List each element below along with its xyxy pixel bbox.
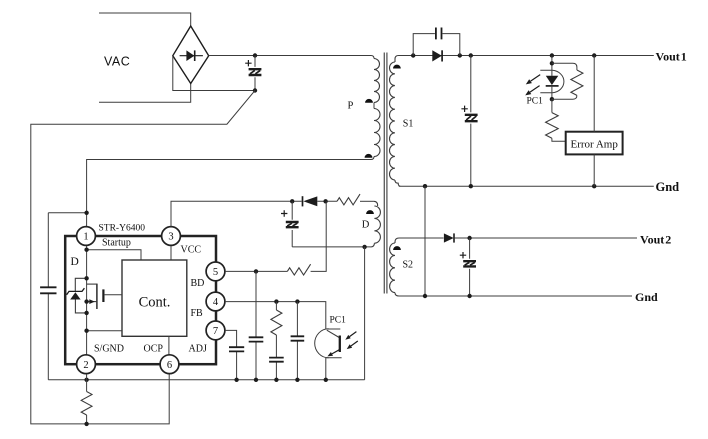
error amplifier box: [566, 132, 623, 155]
svg-text:Error Amp: Error Amp: [571, 138, 619, 150]
IC U1 STR-Y6400 outline: [65, 236, 216, 364]
node MOSFET source junction: [84, 299, 88, 303]
node output cap junction: [469, 53, 473, 57]
svg-text:Cont.: Cont.: [139, 295, 171, 311]
wire Gnd2 rail: [399, 295, 632, 297]
capacitor Vout2 electrolytic C9: [463, 261, 476, 266]
capacitor BD bypass C3: [249, 337, 264, 341]
wire FB cap2 line: [296, 302, 298, 380]
node DC bus junction: [253, 53, 257, 57]
node Gnd junction output cap: [469, 184, 473, 188]
wire Gnd link between outputs: [424, 186, 426, 296]
wire FB pin lead: [225, 302, 326, 329]
svg-text:D: D: [71, 256, 79, 268]
node snubber left junction: [411, 53, 415, 57]
pin 1 drain: [77, 227, 96, 246]
svg-text:2: 2: [83, 360, 88, 371]
node body diode cathode junction: [84, 311, 88, 315]
node snubber right junction: [458, 53, 462, 57]
wire Vout2 rail: [454, 237, 637, 239]
svg-text:3: 3: [168, 232, 173, 243]
node bus junction pin2: [84, 378, 88, 382]
node Cont lead junction: [84, 329, 88, 333]
svg-text:VCC: VCC: [181, 244, 202, 255]
pin 7 ADJ: [206, 321, 225, 340]
wire MOSFET gate lead: [104, 294, 122, 296]
node S2 polarity dot: [393, 246, 401, 250]
node LED cathode junction: [550, 97, 554, 101]
node body diode anode junction: [84, 276, 88, 280]
node primary winding bottom dot: [365, 154, 373, 158]
bridge rectifier inner diode: [180, 55, 203, 57]
node aux diode anode junction: [323, 199, 327, 203]
resistor LED parallel R5: [571, 70, 583, 95]
wire snubber loop: [413, 34, 460, 56]
resistor sense R1: [81, 392, 92, 416]
svg-text:ADJ: ADJ: [189, 344, 207, 355]
LED of optocoupler PC1: [546, 76, 559, 85]
node drain tap junction: [84, 211, 88, 215]
wire winding D return to ground bus: [364, 247, 366, 380]
wire LED branch upper: [551, 56, 553, 76]
svg-text:PC1: PC1: [527, 96, 544, 106]
wire bulk cap branch: [254, 56, 256, 91]
wire S2 top lead: [399, 237, 444, 239]
capacitor bulk electrolytic C-in: [249, 69, 262, 75]
wire sense resistor bottom: [86, 415, 88, 424]
wire Cont to source lead: [87, 330, 122, 332]
svg-text:Gnd: Gnd: [656, 180, 680, 194]
capacitor VCC electrolytic C2: [291, 201, 293, 247]
pin 3 VCC: [162, 227, 181, 246]
optocoupler arc around LED: [540, 70, 564, 93]
wire BD bypass cap line: [255, 271, 257, 379]
node FB cap junction: [295, 299, 299, 303]
node bus junction PC1 emitter: [324, 378, 328, 382]
svg-text:VAC: VAC: [104, 55, 130, 69]
wire internal drain-source line: [86, 246, 88, 355]
wire ADJ pin lead: [225, 330, 237, 379]
pin 5 BD: [206, 262, 225, 281]
capacitor FB series C4: [269, 358, 284, 362]
node Gnd junction error amp: [592, 184, 596, 188]
pin 2 S/GND: [77, 355, 96, 374]
node VCC cap junction: [290, 199, 294, 203]
capacitor snubber C7: [436, 28, 442, 40]
bridge rectifier BR1 diamond: [173, 26, 209, 84]
wire FB resistor top lead: [275, 302, 277, 310]
svg-text:Vout 1: Vout 1: [656, 49, 687, 63]
wire VAC bottom input line: [99, 84, 191, 103]
pin 4 FB: [206, 292, 225, 311]
wire error amp vertical feed: [593, 56, 595, 187]
capacitor ADJ C6: [229, 347, 244, 351]
svg-text:7: 7: [213, 326, 218, 337]
node S1 polarity dot: [393, 65, 401, 69]
wire output cap line: [470, 56, 472, 187]
node bus junction BD cap: [254, 378, 258, 382]
transistor PC1 phototransistor: [326, 328, 341, 330]
transformer auxiliary winding D: [374, 201, 378, 206]
wire VCC internal lead: [170, 246, 172, 260]
node FB resistor junction: [274, 299, 278, 303]
resistor FB R4: [271, 310, 282, 335]
wire aux diode to resistor: [317, 200, 337, 202]
svg-text:1: 1: [83, 232, 88, 243]
svg-text:FB: FB: [191, 308, 204, 319]
wire aux resistor to winding D: [360, 200, 374, 202]
transformer primary winding P upper section: [371, 56, 374, 59]
wire drain tap to left cap: [48, 212, 86, 214]
wire FB resistor to cap: [275, 335, 277, 380]
wire LED parallel resistor loop: [552, 63, 577, 99]
wire Gnd rail: [399, 185, 654, 187]
svg-text:S/GND: S/GND: [94, 344, 124, 355]
resistor aux R2: [337, 194, 360, 205]
wire source/ground bus: [48, 379, 364, 381]
node Gnd2 junction link: [423, 294, 427, 298]
resistor BD R3: [287, 264, 310, 275]
node Vout2 cap junction: [467, 236, 471, 240]
svg-text:S1: S1: [403, 119, 414, 130]
svg-text:S2: S2: [403, 260, 414, 271]
controller block Cont rect: [122, 260, 187, 336]
node bulk cap negative junction: [253, 88, 257, 92]
zener body diode DZ: [75, 278, 86, 291]
diode aux D2 (points left): [302, 196, 304, 206]
wire primary ground diagonal + left rail + bottom return: [31, 91, 255, 424]
wire aux return line: [292, 246, 370, 248]
node winding D return junction: [362, 245, 366, 249]
wire BD pin lead: [225, 270, 287, 272]
svg-text:Gnd: Gnd: [635, 290, 658, 304]
resistor error amp R6: [546, 113, 559, 139]
diode Vout2 rectifier D3: [444, 233, 454, 242]
capacitor left C1: [40, 287, 56, 293]
svg-text:Vout 2: Vout 2: [640, 232, 671, 246]
wire primary winding mid joint: [373, 103, 375, 109]
pin 6 OCP: [160, 355, 179, 374]
node bus junction ADJ cap: [234, 378, 238, 382]
light arrows from LED: [531, 75, 541, 82]
svg-text:D: D: [362, 220, 370, 231]
wire startup tap: [87, 250, 141, 260]
node primary winding tap dot: [365, 99, 373, 103]
wire pin2 source lead: [86, 374, 88, 392]
node Gnd junction S2 link: [423, 184, 427, 188]
node Gnd2 junction cap: [467, 294, 471, 298]
svg-text:Startup: Startup: [102, 238, 131, 249]
wire LED to error amp resistor: [551, 99, 553, 112]
wire Vout2 cap line: [469, 238, 471, 296]
wire resistor to error amp box: [552, 138, 566, 141]
transformer secondary winding S2: [395, 238, 399, 243]
transformer secondary winding S1: [395, 56, 399, 63]
wire Vout1 rail: [399, 55, 654, 57]
diode output rectifier D1: [432, 50, 442, 61]
light arrows into PC1: [350, 332, 357, 337]
wire primary bottom lead to MOSFET drain: [87, 160, 371, 227]
node LED loop top junction: [550, 61, 554, 65]
node error amp branch junction: [592, 53, 596, 57]
svg-text:BD: BD: [191, 278, 205, 289]
wire rectified DC bus to primary: [209, 55, 371, 57]
transformer core: [384, 53, 387, 294]
node BD cap junction: [254, 269, 258, 273]
wire BD resistor to aux node: [311, 201, 327, 271]
wire pin3 VCC to aux rectifier: [171, 201, 302, 226]
wire bridge negative return: [173, 56, 255, 91]
node bus junction FB cap2: [295, 378, 299, 382]
capacitor output electrolytic C8: [465, 115, 478, 121]
capacitor FB C5: [291, 336, 305, 340]
wire Cont to OCP internal lead: [168, 336, 170, 355]
node startup junction: [84, 248, 88, 252]
svg-text:4: 4: [213, 297, 219, 308]
svg-text:PC1: PC1: [330, 316, 347, 326]
node bus junction FB cap: [274, 378, 278, 382]
svg-text:STR-Y6400: STR-Y6400: [99, 224, 146, 234]
wire PC1 emitter to ground bus: [325, 358, 327, 380]
node LED branch junction: [550, 53, 554, 57]
svg-text:5: 5: [213, 267, 218, 278]
svg-text:OCP: OCP: [144, 344, 164, 355]
transistor MOSFET Q1: [96, 284, 98, 309]
transformer primary winding P lower section: [374, 109, 380, 157]
node sense resistor ground junction: [84, 422, 88, 426]
wire VAC top input line: [99, 13, 191, 26]
svg-text:6: 6: [167, 360, 172, 371]
wire left snubber cap line: [47, 213, 49, 380]
svg-text:P: P: [348, 101, 354, 112]
node winding D polarity dot: [366, 210, 374, 214]
